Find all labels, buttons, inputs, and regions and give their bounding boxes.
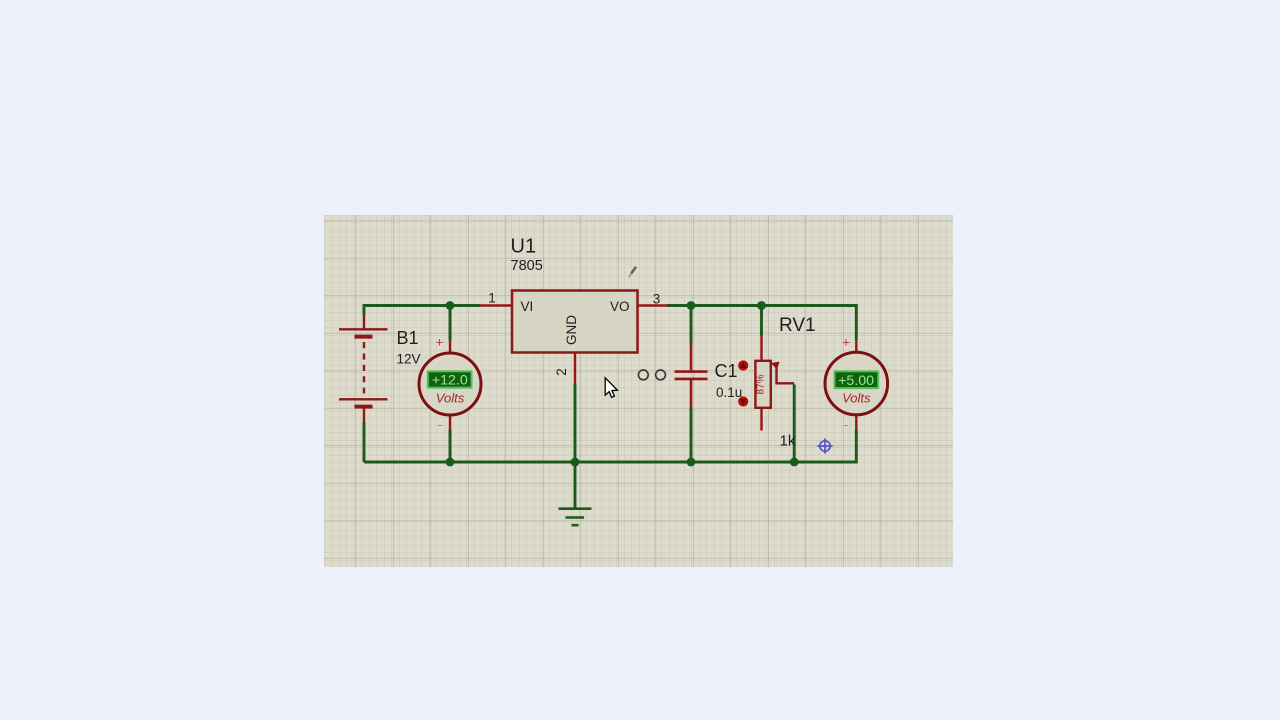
op-amp U1 7805 regulator body (512, 291, 638, 353)
svg-text:12V: 12V (397, 352, 421, 367)
pin 1 wire (480, 304, 512, 306)
wire RV1 wiper to bottom rail (793, 385, 796, 463)
pin 2 wire (574, 353, 576, 384)
ground (559, 509, 592, 526)
wire ground drop (574, 462, 577, 509)
pin 3 wire (638, 304, 668, 306)
svg-text:-: - (438, 417, 442, 432)
wire bottom rail (364, 430, 856, 463)
battery B1 (339, 315, 388, 423)
pencil cursor icon (629, 267, 636, 278)
wire voltmeter1 bottom (449, 430, 452, 463)
voltmeter VM2 (825, 335, 888, 433)
svg-text:RV1: RV1 (779, 315, 816, 336)
capacitor C1 (675, 343, 708, 408)
junction node bottom-ground (571, 458, 580, 467)
svg-text:B1: B1 (397, 328, 419, 348)
junction node bottom-VM1 (446, 458, 455, 467)
svg-text:7805: 7805 (511, 258, 543, 274)
svg-text:C1: C1 (715, 361, 738, 381)
svg-text:Volts: Volts (436, 391, 465, 406)
svg-text:0.1u: 0.1u (716, 385, 742, 400)
svg-text:3: 3 (653, 292, 661, 307)
potentiometer RV1 (755, 336, 794, 431)
svg-text:2: 2 (554, 368, 569, 376)
svg-text:Volts: Volts (842, 391, 871, 406)
junction node top-C1 (687, 301, 696, 310)
svg-text:+12.0: +12.0 (432, 373, 468, 389)
svg-text:+: + (436, 335, 444, 350)
origin crosshair marker (817, 438, 832, 453)
svg-text:1k: 1k (780, 433, 796, 450)
schematic canvas background (324, 215, 953, 567)
svg-text:U1: U1 (511, 236, 537, 258)
svg-text:+: + (842, 335, 850, 350)
svg-text:87%: 87% (756, 374, 767, 394)
svg-text:+5.00: +5.00 (838, 373, 874, 389)
junction node top-VM1 (446, 301, 455, 310)
mouse cursor (605, 378, 617, 398)
wire C1 stubs (690, 306, 693, 463)
RV1 down button (738, 396, 748, 406)
wire RV1 top stub (760, 306, 763, 336)
svg-text:1: 1 (488, 291, 496, 306)
voltmeter VM1 (419, 335, 481, 433)
animation rings (638, 370, 648, 380)
junction node bottom-wiper (790, 458, 799, 467)
svg-text:VI: VI (521, 299, 534, 314)
junction node bottom-C1 (687, 458, 696, 467)
wire top rail (364, 306, 480, 463)
RV1 up button (738, 360, 748, 370)
svg-text:-: - (844, 417, 848, 432)
svg-text:VO: VO (610, 299, 630, 314)
wire top rail right of U1 (667, 306, 856, 341)
junction node top-RV1 (757, 301, 766, 310)
svg-text:GND: GND (564, 315, 579, 345)
wire U1 pin2 to bottom rail (574, 384, 577, 463)
